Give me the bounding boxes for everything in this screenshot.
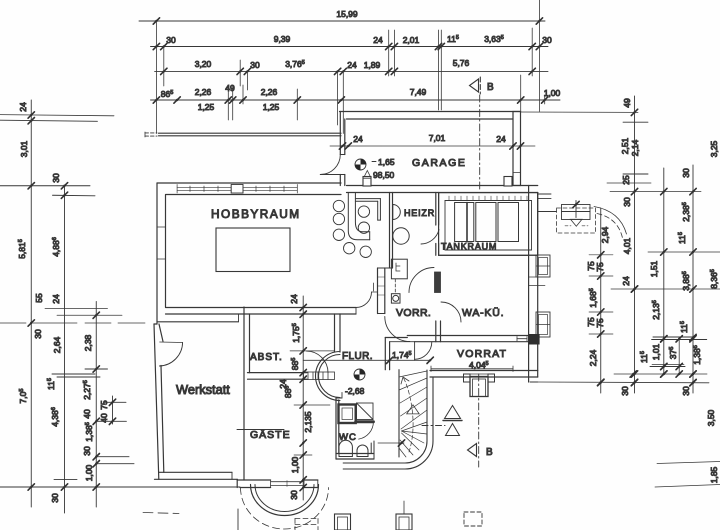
right dim column R1 <box>623 96 648 393</box>
svg-text:49: 49 <box>225 83 235 93</box>
svg-text:30: 30 <box>622 197 632 207</box>
wa-kü north wall (tank bottom) <box>440 254 529 256</box>
garage south wall <box>347 186 538 193</box>
dim 1,74.5 / 4,04.5 <box>303 357 513 371</box>
svg-text:GARAGE: GARAGE <box>412 157 467 169</box>
garage north wall <box>340 112 521 120</box>
svg-text:2,51: 2,51 <box>620 137 630 154</box>
right horizontal line y=374 <box>614 371 707 377</box>
vorrat corner post <box>529 334 540 345</box>
right horizontal line y=289 <box>611 286 720 292</box>
svg-text:4,01: 4,01 <box>622 237 632 254</box>
right dim column R0 <box>589 208 613 393</box>
svg-text:98,50: 98,50 <box>373 170 395 180</box>
bay terrace dashed arc <box>241 488 329 530</box>
svg-text:-2,68: -2,68 <box>345 386 365 396</box>
left dimension column L2 <box>0 183 100 513</box>
stair direction triangle <box>407 405 420 414</box>
hobbyraum chairs <box>333 200 371 257</box>
boundary lines top left <box>0 115 114 122</box>
wc corner square with diagonal <box>357 403 374 420</box>
bar counter <box>348 193 380 240</box>
svg-text:3,50: 3,50 <box>706 409 716 426</box>
werkstatt north wall lower line <box>157 314 239 322</box>
flur-vorr wall lower <box>378 268 393 314</box>
svg-text:2,38: 2,38 <box>83 334 93 351</box>
svg-text:24: 24 <box>18 102 28 112</box>
oil tanks <box>455 203 519 242</box>
terrace steps dashed <box>295 519 318 530</box>
gäste east wall lower <box>336 393 342 460</box>
dim 24 / 7,01 garage <box>330 143 535 149</box>
svg-text:2,26: 2,26 <box>261 87 278 97</box>
flur-vorr wall upper (heizr west) <box>390 193 393 269</box>
right horizontal line y=252 <box>648 249 720 255</box>
svg-text:24: 24 <box>353 134 363 144</box>
svg-text:30: 30 <box>166 35 176 45</box>
garage south wall posts <box>363 177 512 187</box>
stair landing box <box>385 338 414 370</box>
wc shower tray <box>339 405 356 424</box>
east exterior wall <box>529 186 538 383</box>
svg-text:24: 24 <box>621 276 631 286</box>
wc bidet <box>357 445 368 456</box>
terrace edge line bottom <box>237 509 239 530</box>
svg-text:30: 30 <box>620 386 630 396</box>
svg-text:1,89: 1,89 <box>364 60 381 70</box>
garage elevation marker <box>355 159 376 170</box>
tankraum NE stub <box>538 194 551 199</box>
svg-text:3,25: 3,25 <box>709 140 719 157</box>
stair treads <box>399 371 427 457</box>
right dims: line at garage level <box>521 109 649 122</box>
dim tick at stair <box>378 440 405 446</box>
vorrat north wall <box>407 336 528 342</box>
short line y=183 right <box>607 182 651 184</box>
tankraum box <box>439 193 538 256</box>
radiator at flur <box>304 372 335 380</box>
abst room walls <box>244 307 340 480</box>
garage east pillar <box>513 112 521 186</box>
gäste window <box>271 480 304 488</box>
wc door leaf and arc <box>356 422 374 439</box>
werkstatt west wall <box>154 324 164 479</box>
vorrat west door arc <box>415 342 432 359</box>
vorr freezer <box>391 259 407 293</box>
svg-text:2,14: 2,14 <box>630 139 640 156</box>
svg-text:24: 24 <box>373 35 383 45</box>
bay window walls <box>251 485 319 516</box>
hobbyraum south wall <box>166 308 357 315</box>
svg-text:ABST.: ABST. <box>250 352 283 363</box>
svg-text:7,01: 7,01 <box>429 133 446 143</box>
dashed terrace line bottom left <box>143 513 179 514</box>
svg-text:75: 75 <box>99 400 109 410</box>
vorr south door arc <box>385 317 410 342</box>
svg-text:1,51: 1,51 <box>649 260 659 277</box>
vorr door arc (upper) <box>409 268 434 293</box>
svg-text:15,99: 15,99 <box>336 9 358 19</box>
svg-text:B: B <box>487 82 494 93</box>
hobbyraum west wall <box>157 183 166 324</box>
connector verticals from top dims <box>156 0 544 134</box>
svg-text:30: 30 <box>82 446 92 456</box>
svg-text:5,76: 5,76 <box>453 58 470 68</box>
svg-text:VORR.: VORR. <box>396 307 431 319</box>
svg-text:30: 30 <box>51 173 61 183</box>
gäste door arc <box>307 351 329 373</box>
svg-text:Werkstatt: Werkstatt <box>176 382 230 397</box>
vorrat south wall <box>430 371 538 383</box>
section A marker <box>422 406 462 436</box>
left dimension column L4 <box>104 396 126 424</box>
svg-text:FLUR.: FLUR. <box>342 351 373 362</box>
svg-text:3,20: 3,20 <box>195 59 212 69</box>
flur curved wall <box>316 352 341 401</box>
garage west wall with door opening <box>340 112 345 186</box>
garage side door arc <box>320 155 340 175</box>
left dimension column L1 <box>28 100 34 507</box>
svg-text:2,64: 2,64 <box>52 336 62 353</box>
svg-text:30: 30 <box>33 329 43 339</box>
vorr washer <box>391 294 400 303</box>
dashed garden path curve <box>594 207 627 239</box>
long base line y=382.6 <box>538 379 709 386</box>
werkstatt south wall <box>155 472 238 479</box>
svg-text:2,26: 2,26 <box>195 87 212 97</box>
right dim column R2 <box>661 168 667 377</box>
wc toilet <box>339 440 352 456</box>
dimension line row 2: 30 9,39 24 2,01 11.5 3,63.5 30 <box>151 43 549 49</box>
gäste south wall with window <box>237 479 318 487</box>
svg-text:TANKRAUM: TANKRAUM <box>441 242 497 252</box>
vorrat window top <box>517 337 527 342</box>
svg-text:VORRAT: VORRAT <box>457 348 507 360</box>
svg-text:1,25: 1,25 <box>198 102 215 112</box>
svg-text:1,00: 1,00 <box>84 464 94 481</box>
svg-text:40: 40 <box>82 409 92 419</box>
dimension line row 3: 3,20 30 3,76.5 24 1,89 5,76 <box>155 68 548 74</box>
svg-text:GÄSTE: GÄSTE <box>250 429 291 441</box>
wc south wall <box>336 441 374 459</box>
pillar squares bottom <box>335 501 483 530</box>
svg-text:1,65: 1,65 <box>378 157 395 167</box>
east wall windows <box>529 255 550 337</box>
svg-text:30: 30 <box>542 35 552 45</box>
svg-text:2,94: 2,94 <box>600 226 610 243</box>
svg-text:1,00: 1,00 <box>544 88 561 98</box>
section line B through garage <box>479 95 481 190</box>
bottom dimension base line <box>0 486 240 488</box>
dimension line 15,99 <box>139 18 545 24</box>
svg-text:2,24: 2,24 <box>588 349 598 366</box>
svg-text:30: 30 <box>50 493 60 503</box>
svg-text:1,01: 1,01 <box>651 343 661 360</box>
svg-text:40: 40 <box>99 413 109 423</box>
hobbyraum table <box>216 228 290 272</box>
heizr door arc <box>421 230 439 245</box>
small lines near hobbyraum SW corner <box>0 309 145 324</box>
svg-text:30: 30 <box>289 490 299 500</box>
mid dimension column x=303 <box>290 296 334 500</box>
werkstatt door arc <box>159 342 182 366</box>
svg-text:49: 49 <box>622 98 632 108</box>
section mark B top <box>470 77 481 94</box>
svg-text:HEIZR: HEIZR <box>404 208 435 218</box>
section line B bottom <box>468 374 479 467</box>
svg-text:30: 30 <box>681 168 691 178</box>
chimney <box>464 374 495 397</box>
outside entrance stair block <box>538 201 596 234</box>
svg-text:9,39: 9,39 <box>274 34 291 44</box>
svg-text:B: B <box>486 447 493 458</box>
heizr tank circle <box>393 228 409 244</box>
dimension line row 4: 86.5 2,26 49 2,26 7,49 1,00 <box>151 97 561 103</box>
svg-text:HOBBYRAUM: HOBBYRAUM <box>211 207 301 221</box>
flur entry door arc <box>356 283 378 308</box>
svg-text:30: 30 <box>681 386 691 396</box>
stairwell walls <box>343 370 433 469</box>
svg-text:3,01: 3,01 <box>19 140 29 157</box>
svg-text:1,25: 1,25 <box>263 102 280 112</box>
svg-text:75: 75 <box>595 318 605 328</box>
heizr boiler D <box>393 205 401 220</box>
wa-kü west wall with double doors <box>435 272 441 342</box>
wa-kü door arc <box>441 302 461 322</box>
svg-text:WA-KÜ.: WA-KÜ. <box>462 307 504 319</box>
svg-text:1,85: 1,85 <box>709 466 719 483</box>
right wall dim lines y=338.8 / 366.5 <box>650 336 707 374</box>
left dimension column L3 <box>85 302 134 508</box>
svg-text:1,00: 1,00 <box>290 456 300 473</box>
north boundary wall <box>145 132 341 137</box>
svg-text:24: 24 <box>51 294 61 304</box>
right dim column R3 <box>690 165 696 393</box>
svg-text:2,135: 2,135 <box>303 411 313 433</box>
svg-text:24: 24 <box>347 60 357 70</box>
svg-text:24: 24 <box>496 134 506 144</box>
svg-text:25: 25 <box>621 175 631 185</box>
hobbyraum north wall with windows <box>157 183 341 195</box>
right horizontal line y=191.6 <box>610 188 701 194</box>
svg-text:75: 75 <box>595 262 605 272</box>
svg-text:2,01: 2,01 <box>403 35 420 45</box>
svg-text:55: 55 <box>34 293 44 303</box>
heizr-tankraum west wall <box>436 193 439 256</box>
flur elevation marker <box>354 369 365 380</box>
bottom right converging lines <box>655 462 720 488</box>
svg-text:7,49: 7,49 <box>410 87 427 97</box>
svg-text:30: 30 <box>250 60 260 70</box>
svg-text:24: 24 <box>289 294 299 304</box>
tankraum tick band <box>449 196 527 200</box>
